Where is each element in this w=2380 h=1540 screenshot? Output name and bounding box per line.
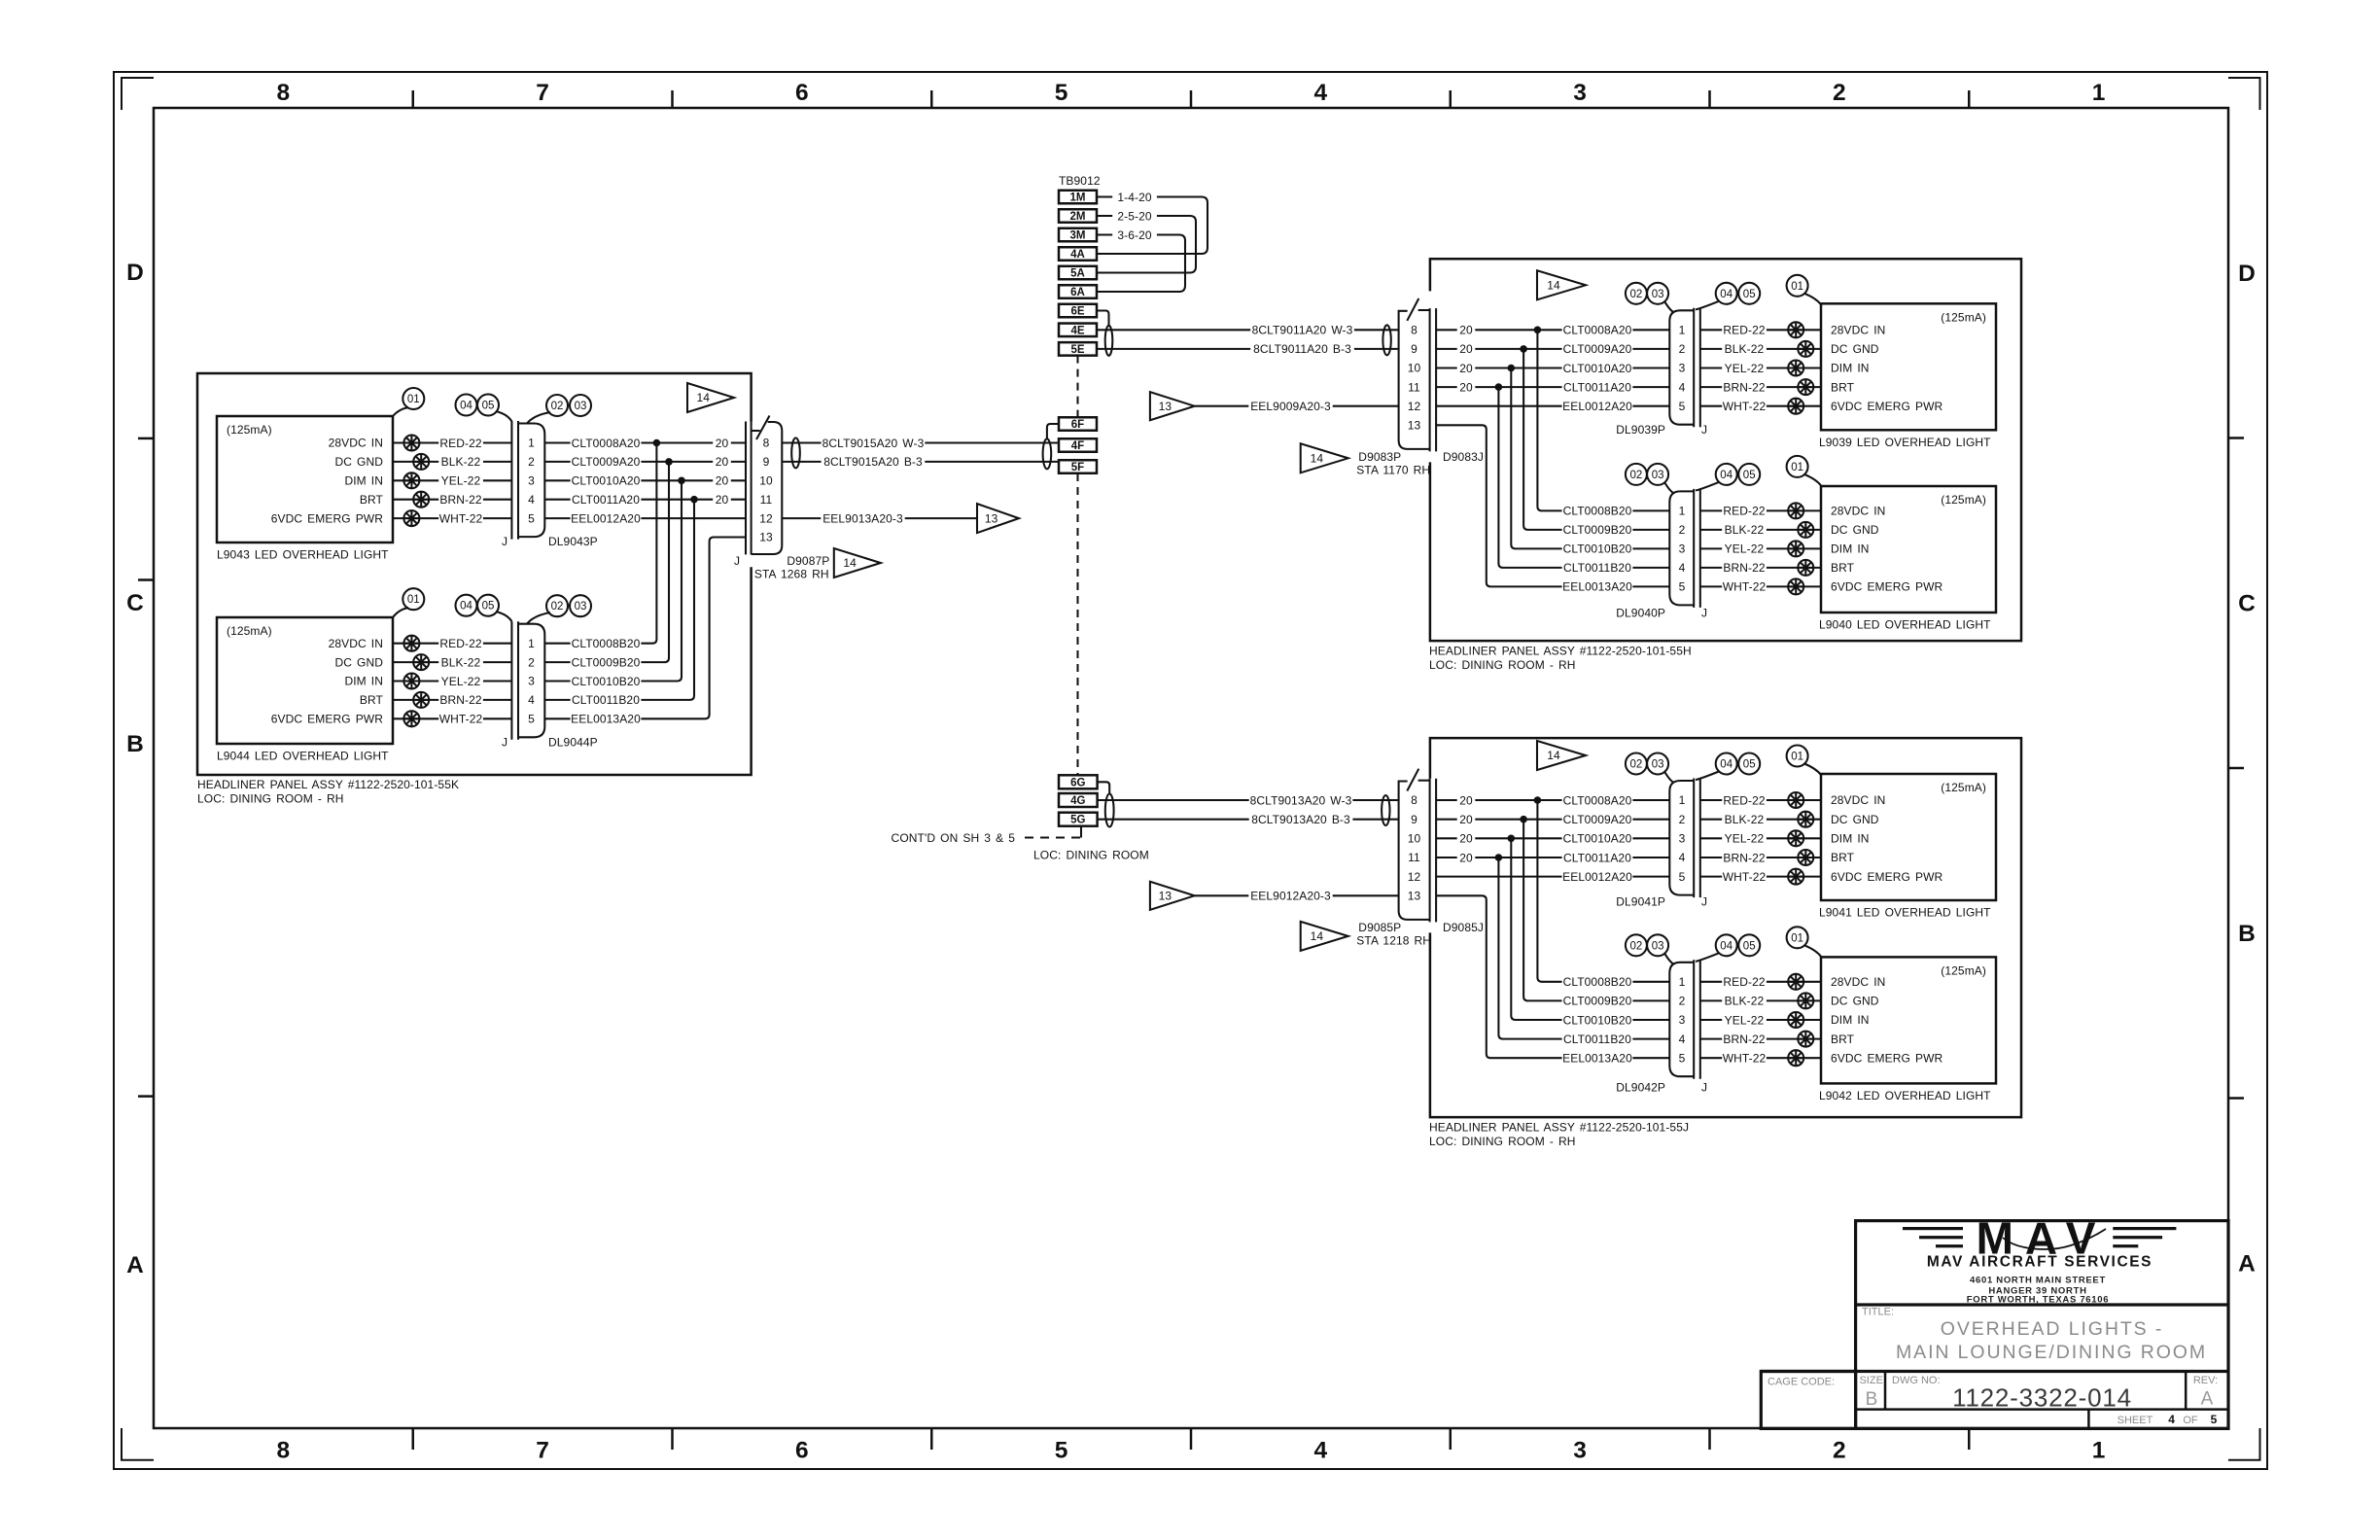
- svg-text:10: 10: [1408, 832, 1421, 846]
- svg-text:D9087P: D9087P: [787, 554, 829, 568]
- svg-text:1: 1: [2092, 1438, 2106, 1464]
- wire CLT0011A20 (DL9043P-4 to D9087P-11): [544, 499, 746, 501]
- svg-text:13: 13: [759, 531, 773, 544]
- svg-text:DL9044P: DL9044P: [548, 736, 598, 750]
- svg-text:20: 20: [1459, 342, 1473, 356]
- svg-text:RED-22: RED-22: [439, 437, 482, 450]
- flag 14 (D9087P): [834, 548, 881, 577]
- svg-text:CLT0011A20: CLT0011A20: [1563, 851, 1631, 864]
- svg-text:BLK-22: BLK-22: [441, 455, 481, 469]
- svg-text:04: 04: [1720, 289, 1732, 300]
- shield symbol at D9083P 8/9: [1382, 325, 1390, 355]
- wire BLK-22 (L9043 DC GND to DL9043P-2): [393, 461, 511, 463]
- svg-text:6VDC EMERG PWR: 6VDC EMERG PWR: [271, 713, 384, 726]
- svg-text:2: 2: [528, 655, 535, 669]
- svg-text:DL9043P: DL9043P: [548, 535, 598, 548]
- svg-text:05: 05: [482, 601, 495, 612]
- svg-text:14: 14: [1311, 929, 1324, 943]
- svg-text:CLT0010B20: CLT0010B20: [1563, 1013, 1632, 1027]
- svg-text:CLT0011A20: CLT0011A20: [572, 493, 640, 507]
- svg-text:05: 05: [1743, 289, 1756, 300]
- svg-text:CONT'D ON SH 3 & 5: CONT'D ON SH 3 & 5: [892, 831, 1016, 845]
- terminal TB9012-4E: [1059, 324, 1097, 337]
- svg-text:1: 1: [1679, 505, 1686, 518]
- svg-text:6VDC EMERG PWR: 6VDC EMERG PWR: [1831, 870, 1943, 884]
- svg-text:B: B: [1866, 1389, 1878, 1410]
- svg-text:EEL9013A20-3: EEL9013A20-3: [822, 511, 903, 525]
- svg-text:01: 01: [407, 594, 420, 606]
- callout 01 (L9043): [393, 407, 408, 416]
- svg-text:EEL0012A20: EEL0012A20: [1562, 870, 1632, 884]
- svg-text:C: C: [2238, 590, 2256, 616]
- svg-text:01: 01: [1791, 752, 1803, 763]
- svg-text:CLT0010A20: CLT0010A20: [1563, 832, 1632, 846]
- svg-text:YEL-22: YEL-22: [441, 675, 481, 688]
- flag 13 (EEL9009A20-3): [1150, 392, 1195, 420]
- junction CLT0008A20/CLT0008B20: [1534, 327, 1542, 334]
- wire RED-22 (DL9040P-1 to L9040 28VDC IN): [1700, 509, 1821, 511]
- svg-text:CLT0011A20: CLT0011A20: [1563, 380, 1631, 394]
- svg-text:4: 4: [2168, 1413, 2175, 1426]
- svg-text:J: J: [1701, 1081, 1707, 1095]
- svg-text:DIM IN: DIM IN: [1831, 832, 1870, 846]
- svg-text:CLT0008B20: CLT0008B20: [1563, 975, 1632, 989]
- terminal 5G: [1059, 813, 1098, 826]
- svg-text:28VDC IN: 28VDC IN: [1831, 975, 1885, 989]
- wire CLT0010B20 (junction tap to DL9040P-3): [1511, 368, 1669, 549]
- callouts 02 03 (DL9043P): [527, 412, 550, 424]
- wire 8CLT9013A20 W-3 (4G to D9085P-8): [1098, 799, 1399, 801]
- connector DL9041P (J): [1693, 779, 1695, 898]
- svg-text:14: 14: [697, 391, 711, 404]
- svg-text:8CLT9013A20 W-3: 8CLT9013A20 W-3: [1250, 793, 1352, 807]
- svg-text:LOC: DINING ROOM - RH: LOC: DINING ROOM - RH: [1429, 658, 1576, 672]
- wire BRN-22 (L9044 BRT to DL9044P-4): [393, 699, 511, 701]
- svg-text:1: 1: [528, 437, 535, 450]
- wire YEL-22 (DL9039P-3 to L9039 DIM IN): [1700, 367, 1821, 368]
- wire 8CLT9011A20 B-3 (TB9012-5E to D9083P-9): [1097, 348, 1399, 350]
- wire EEL9013A20-3 (D9087P-12 to flag 13): [782, 517, 977, 519]
- svg-text:WHT-22: WHT-22: [439, 713, 483, 726]
- svg-text:6: 6: [795, 1438, 809, 1464]
- svg-text:CLT0008A20: CLT0008A20: [1563, 793, 1632, 807]
- svg-text:28VDC IN: 28VDC IN: [1831, 324, 1885, 337]
- svg-text:2: 2: [1679, 523, 1686, 537]
- svg-text:CLT0011B20: CLT0011B20: [1563, 1032, 1631, 1046]
- wire shield drain TB9012-6E: [1097, 311, 1109, 328]
- connector D9083P (STA 1170 RH): [1429, 308, 1431, 451]
- wire RED-22 (L9043 28VDC IN to DL9043P-1): [393, 441, 511, 443]
- svg-text:DC GND: DC GND: [334, 455, 383, 469]
- svg-text:D9083J: D9083J: [1443, 450, 1484, 464]
- terminal TB9012-6E: [1059, 304, 1097, 318]
- svg-text:6G: 6G: [1070, 777, 1085, 788]
- svg-text:8: 8: [1411, 793, 1417, 807]
- svg-text:8CLT9013A20 B-3: 8CLT9013A20 B-3: [1251, 813, 1350, 826]
- svg-text:20: 20: [1459, 324, 1473, 337]
- svg-text:3: 3: [1573, 1438, 1587, 1464]
- terminal TB9012-3M: [1059, 228, 1097, 242]
- terminal 5F: [1059, 460, 1097, 473]
- LED overhead light L9040: [1821, 486, 1996, 612]
- terminal TB9012-5A: [1059, 266, 1097, 280]
- wire BLK-22 (DL9039P-2 to L9039 DC GND): [1700, 348, 1821, 350]
- svg-text:20: 20: [1459, 813, 1473, 826]
- svg-text:6VDC EMERG PWR: 6VDC EMERG PWR: [1831, 1051, 1943, 1065]
- svg-text:3: 3: [1679, 542, 1686, 556]
- svg-text:6VDC EMERG PWR: 6VDC EMERG PWR: [1831, 580, 1943, 594]
- svg-text:5: 5: [1055, 1438, 1068, 1464]
- svg-text:HEADLINER PANEL ASSY #1122-252: HEADLINER PANEL ASSY #1122-2520-101-55J: [1429, 1121, 1689, 1135]
- wire shield drain 6F: [1047, 424, 1059, 440]
- wire shield drain 6G: [1098, 782, 1110, 794]
- svg-text:CLT0011B20: CLT0011B20: [1563, 561, 1631, 575]
- svg-text:3: 3: [1679, 362, 1686, 375]
- svg-text:04: 04: [1720, 759, 1732, 771]
- shield symbol at 4F/5F: [1043, 438, 1052, 469]
- junction CLT0009A20/CLT0009B20: [1520, 816, 1527, 823]
- svg-text:CLT0009B20: CLT0009B20: [572, 655, 641, 669]
- svg-text:2: 2: [1679, 342, 1686, 356]
- svg-text:EEL9012A20-3: EEL9012A20-3: [1250, 890, 1331, 903]
- svg-text:TITLE:: TITLE:: [1862, 1307, 1894, 1318]
- wire YEL-22 (L9043 DIM IN to DL9043P-3): [393, 479, 511, 481]
- wire RED-22 (L9044 28VDC IN to DL9044P-1): [393, 643, 511, 645]
- svg-text:3-6-20: 3-6-20: [1117, 228, 1152, 242]
- svg-text:RED-22: RED-22: [1723, 324, 1766, 337]
- svg-text:DL9039P: DL9039P: [1616, 423, 1665, 437]
- callouts 04 05 (DL9042P): [1696, 953, 1719, 962]
- callout 01 (L9039): [1804, 294, 1821, 305]
- svg-text:CLT0008B20: CLT0008B20: [1563, 505, 1632, 518]
- svg-text:D: D: [2238, 261, 2256, 287]
- dashed line CONT'D ON SH 3 & 5: [1020, 836, 1081, 838]
- LED overhead light L9044: [217, 617, 393, 744]
- svg-text:D9083P: D9083P: [1358, 450, 1401, 464]
- connector DL9042P (J): [1693, 960, 1695, 1078]
- svg-text:TB9012: TB9012: [1059, 174, 1101, 188]
- wire CLT0009B20 (junction tap to DL9040P-2): [1523, 349, 1669, 530]
- svg-text:14: 14: [1311, 452, 1324, 466]
- svg-text:05: 05: [1743, 940, 1756, 952]
- svg-text:9: 9: [1411, 342, 1417, 356]
- svg-text:4: 4: [528, 493, 535, 507]
- svg-text:CLT0009B20: CLT0009B20: [1563, 523, 1632, 537]
- svg-text:1M: 1M: [1070, 192, 1086, 204]
- svg-text:CLT0008A20: CLT0008A20: [572, 437, 641, 450]
- svg-text:(125mA): (125mA): [1941, 493, 1986, 507]
- svg-text:4: 4: [528, 693, 535, 707]
- svg-text:D: D: [126, 260, 144, 286]
- callouts 04 05 (DL9041P): [1696, 772, 1719, 781]
- svg-text:LOC: DINING ROOM - RH: LOC: DINING ROOM - RH: [1429, 1135, 1576, 1148]
- wire BLK-22 (DL9042P-2 to L9042 DC GND): [1700, 999, 1821, 1001]
- svg-text:5: 5: [528, 511, 535, 525]
- wire 3-6-20 (TB9012-3M to TB9012-6A): [1097, 235, 1185, 293]
- flag 13 (EEL9013A20-3): [977, 504, 1019, 533]
- wire BRN-22 (DL9040P-4 to L9040 BRT): [1700, 567, 1821, 569]
- callouts 04 05 (DL9039P): [1696, 301, 1719, 310]
- svg-text:01: 01: [1791, 281, 1803, 293]
- svg-text:YEL-22: YEL-22: [1725, 832, 1765, 846]
- svg-text:7: 7: [536, 80, 549, 106]
- svg-text:L9039 LED OVERHEAD LIGHT: L9039 LED OVERHEAD LIGHT: [1819, 436, 1991, 449]
- svg-text:8CLT9015A20 W-3: 8CLT9015A20 W-3: [822, 437, 925, 450]
- svg-text:J: J: [502, 736, 507, 750]
- svg-text:WHT-22: WHT-22: [1723, 1052, 1767, 1066]
- LED overhead light L9043: [217, 416, 393, 542]
- svg-text:01: 01: [1791, 462, 1803, 473]
- svg-text:2: 2: [1833, 80, 1846, 106]
- svg-text:BRT: BRT: [1831, 380, 1855, 394]
- terminal 4G: [1059, 793, 1098, 807]
- svg-text:20: 20: [716, 493, 729, 507]
- svg-text:3M: 3M: [1070, 230, 1086, 242]
- svg-text:CLT0009B20: CLT0009B20: [1563, 995, 1632, 1008]
- callout 01 (L9042): [1804, 945, 1821, 957]
- wire WHT-22 (DL9039P-5 to L9039 6VDC EMERG PWR): [1700, 405, 1821, 407]
- svg-text:2: 2: [1679, 813, 1686, 826]
- wire EEL0012A20 (D9085P-12 to DL9041P-5): [1436, 876, 1669, 878]
- wire BRN-22 (DL9041P-4 to L9041 BRT): [1700, 857, 1821, 858]
- svg-text:BRT: BRT: [1831, 851, 1855, 864]
- svg-text:3: 3: [1679, 832, 1686, 846]
- junction CLT0009B20/CLT0009A20: [665, 458, 673, 466]
- callouts 04 05 (DL9040P): [1696, 482, 1719, 491]
- svg-text:05: 05: [482, 401, 495, 412]
- svg-text:5A: 5A: [1070, 268, 1085, 280]
- callout 01 (L9041): [1804, 764, 1821, 776]
- wire CLT0011A20 (D9083P-11 to DL9039P-4): [1436, 386, 1669, 388]
- junction CLT0011A20/CLT0011B20: [1495, 854, 1503, 861]
- svg-text:3: 3: [1679, 1013, 1686, 1027]
- svg-text:6VDC EMERG PWR: 6VDC EMERG PWR: [271, 511, 384, 525]
- wire CLT0008B20 (junction tap to DL9042P-1): [1537, 800, 1669, 982]
- svg-text:20: 20: [716, 437, 729, 450]
- wire EEL0013A20 (DL9044P-5 to D9087P-13): [544, 538, 746, 719]
- connector D9085P (STA 1218 RH): [1429, 779, 1431, 923]
- headliner panel assy boundary (55H): [1430, 259, 2021, 641]
- svg-text:8: 8: [1411, 324, 1417, 337]
- svg-text:C: C: [126, 590, 144, 616]
- junction CLT0008A20/CLT0008B20: [1534, 796, 1542, 804]
- wire CLT0009A20 (D9083P-9 to DL9039P-2): [1436, 348, 1669, 350]
- svg-text:J: J: [1701, 423, 1707, 437]
- dashed continuation line 5E to 6F: [1076, 356, 1078, 417]
- svg-text:4: 4: [1679, 380, 1686, 394]
- junction CLT0011B20/CLT0011A20: [690, 496, 698, 504]
- svg-text:9: 9: [763, 455, 770, 469]
- svg-text:CLT0010A20: CLT0010A20: [1563, 362, 1632, 375]
- svg-text:BLK-22: BLK-22: [1725, 995, 1765, 1008]
- svg-text:14: 14: [843, 556, 857, 570]
- svg-text:(125mA): (125mA): [227, 423, 272, 437]
- svg-text:STA 1218 RH: STA 1218 RH: [1356, 934, 1431, 948]
- svg-text:2: 2: [528, 455, 535, 469]
- LED overhead light L9042: [1821, 957, 1996, 1083]
- svg-text:D9085P: D9085P: [1358, 921, 1401, 934]
- svg-text:L9042 LED OVERHEAD LIGHT: L9042 LED OVERHEAD LIGHT: [1819, 1089, 1991, 1102]
- svg-text:YEL-22: YEL-22: [1725, 542, 1765, 556]
- wire CLT0009B20 (junction tap to DL9042P-2): [1523, 820, 1669, 1001]
- svg-text:28VDC IN: 28VDC IN: [329, 437, 383, 450]
- svg-text:(125mA): (125mA): [1941, 310, 1986, 324]
- svg-text:6E: 6E: [1070, 306, 1084, 318]
- svg-text:5: 5: [1679, 580, 1686, 594]
- svg-text:HEADLINER PANEL ASSY #1122-252: HEADLINER PANEL ASSY #1122-2520-101-55H: [1429, 645, 1692, 658]
- svg-text:DIM IN: DIM IN: [1831, 1013, 1870, 1027]
- svg-text:MAIN LOUNGE/DINING ROOM: MAIN LOUNGE/DINING ROOM: [1896, 1342, 2207, 1363]
- terminal TB9012-2M: [1059, 209, 1097, 223]
- svg-text:4F: 4F: [1071, 440, 1084, 452]
- svg-text:20: 20: [1459, 851, 1473, 864]
- svg-text:DL9041P: DL9041P: [1616, 895, 1665, 909]
- flag 14 (D9085P): [1301, 922, 1348, 951]
- svg-text:YEL-22: YEL-22: [1725, 362, 1765, 375]
- svg-text:DC GND: DC GND: [1831, 995, 1879, 1008]
- wire EEL9009A20-3 (flag 13 to D9083P-12): [1195, 405, 1399, 407]
- svg-text:4: 4: [1314, 80, 1328, 106]
- svg-text:RED-22: RED-22: [1723, 505, 1766, 518]
- svg-text:1: 1: [2092, 80, 2106, 106]
- svg-text:8: 8: [277, 1438, 291, 1464]
- svg-text:6F: 6F: [1071, 419, 1084, 431]
- svg-text:CLT0011B20: CLT0011B20: [572, 693, 640, 707]
- junction CLT0010B20/CLT0010A20: [678, 477, 685, 485]
- svg-text:BRT: BRT: [1831, 1032, 1855, 1046]
- callouts 02 03 (DL9041P): [1664, 772, 1674, 784]
- svg-text:CAGE CODE:: CAGE CODE:: [1767, 1377, 1835, 1388]
- svg-text:CLT0009A20: CLT0009A20: [1563, 813, 1632, 826]
- wire YEL-22 (L9044 DIM IN to DL9044P-3): [393, 680, 511, 682]
- junction CLT0010A20/CLT0010B20: [1508, 835, 1516, 843]
- wire CLT0008A20 (DL9043P-1 to D9087P-8): [544, 441, 746, 443]
- svg-text:02: 02: [551, 601, 564, 612]
- wire EEL0013A20 (D9085P-13 to DL9042P-5): [1436, 895, 1669, 1058]
- svg-text:5: 5: [1679, 1051, 1686, 1065]
- svg-text:MAV AIRCRAFT SERVICES: MAV AIRCRAFT SERVICES: [1927, 1254, 2152, 1271]
- svg-text:5F: 5F: [1071, 462, 1084, 473]
- junction CLT0011A20/CLT0011B20: [1495, 383, 1503, 391]
- svg-text:04: 04: [460, 401, 472, 412]
- wire CLT0010B20 (DL9044P-3 tap to junction): [544, 480, 682, 681]
- svg-text:8: 8: [763, 437, 770, 450]
- svg-text:STA 1170 RH: STA 1170 RH: [1356, 464, 1430, 477]
- wire CLT0011B20 (DL9044P-4 tap to junction): [544, 500, 694, 700]
- svg-text:4E: 4E: [1070, 325, 1084, 336]
- svg-text:7: 7: [536, 1438, 549, 1464]
- svg-text:DL9040P: DL9040P: [1616, 607, 1665, 620]
- svg-text:12: 12: [1408, 400, 1421, 413]
- terminal TB9012-1M: [1059, 191, 1097, 204]
- terminal 4F: [1059, 438, 1097, 452]
- svg-text:11: 11: [1408, 380, 1420, 394]
- wire BLK-22 (DL9040P-2 to L9040 DC GND): [1700, 529, 1821, 531]
- svg-text:CLT0009A20: CLT0009A20: [572, 455, 641, 469]
- wire EEL0012A20 (D9083P-12 to DL9039P-5): [1436, 405, 1669, 407]
- wire CLT0009B20 (DL9044P-2 tap to junction): [544, 462, 669, 662]
- svg-text:28VDC IN: 28VDC IN: [1831, 793, 1885, 807]
- svg-text:01: 01: [1791, 932, 1803, 944]
- svg-text:L9040 LED OVERHEAD LIGHT: L9040 LED OVERHEAD LIGHT: [1819, 618, 1991, 632]
- wire RED-22 (DL9039P-1 to L9039 28VDC IN): [1700, 329, 1821, 331]
- svg-text:DIM IN: DIM IN: [344, 675, 383, 688]
- svg-text:CLT0010A20: CLT0010A20: [572, 474, 641, 488]
- svg-text:J: J: [734, 554, 740, 568]
- wire YEL-22 (DL9040P-3 to L9040 DIM IN): [1700, 547, 1821, 549]
- svg-text:8: 8: [277, 80, 291, 106]
- svg-text:04: 04: [1720, 940, 1732, 952]
- wire WHT-22 (L9043 6VDC EMERG PWR to DL9043P-5): [393, 517, 511, 519]
- svg-text:BRN-22: BRN-22: [1723, 851, 1766, 864]
- svg-text:WHT-22: WHT-22: [1723, 580, 1767, 594]
- svg-text:OVERHEAD LIGHTS -: OVERHEAD LIGHTS -: [1941, 1318, 2164, 1340]
- svg-text:BRT: BRT: [1831, 561, 1855, 575]
- svg-text:(125mA): (125mA): [1941, 963, 1986, 977]
- svg-text:DC GND: DC GND: [1831, 523, 1879, 537]
- flag 14 (panel): [1537, 741, 1586, 770]
- svg-text:28VDC IN: 28VDC IN: [329, 637, 383, 650]
- svg-text:CLT0009A20: CLT0009A20: [1563, 342, 1632, 356]
- svg-text:BRN-22: BRN-22: [439, 493, 482, 507]
- svg-text:02: 02: [1630, 289, 1643, 300]
- callout 01 (L9044): [393, 608, 408, 617]
- svg-text:04: 04: [1720, 470, 1732, 481]
- svg-text:03: 03: [575, 601, 587, 612]
- svg-text:20: 20: [716, 474, 729, 488]
- svg-text:1: 1: [1679, 324, 1686, 337]
- svg-text:6A: 6A: [1070, 287, 1085, 298]
- svg-text:SHEET: SHEET: [2117, 1415, 2153, 1426]
- terminal TB9012-6A: [1059, 285, 1097, 298]
- dashed continuation line 5F to 6G: [1076, 473, 1078, 775]
- svg-text:4A: 4A: [1070, 249, 1085, 261]
- svg-text:3: 3: [528, 474, 535, 488]
- headliner panel assy 55K boundary: [197, 373, 752, 775]
- wire CLT0008A20 (D9083P-8 to DL9039P-1): [1436, 329, 1669, 331]
- wire WHT-22 (L9044 6VDC EMERG PWR to DL9044P-5): [393, 717, 511, 719]
- terminal 6G: [1059, 775, 1098, 788]
- continuation stub below 5G: [1080, 826, 1082, 838]
- svg-text:LOC: DINING ROOM - RH: LOC: DINING ROOM - RH: [197, 792, 344, 806]
- terminal TB9012-5E: [1059, 342, 1097, 356]
- svg-text:OF: OF: [2183, 1415, 2198, 1426]
- svg-text:1122-3322-014: 1122-3322-014: [1952, 1383, 2132, 1413]
- svg-text:EEL0013A20: EEL0013A20: [1562, 1052, 1632, 1066]
- svg-text:BLK-22: BLK-22: [1725, 813, 1765, 826]
- wire BRN-22 (L9043 BRT to DL9043P-4): [393, 499, 511, 501]
- svg-text:B: B: [2238, 921, 2256, 947]
- svg-text:BLK-22: BLK-22: [441, 655, 481, 669]
- callouts 02 03 (DL9039P): [1664, 301, 1674, 313]
- svg-text:LOC: DINING ROOM: LOC: DINING ROOM: [1033, 849, 1149, 862]
- svg-text:J: J: [502, 535, 507, 548]
- svg-text:02: 02: [551, 401, 564, 412]
- svg-text:20: 20: [1459, 793, 1473, 807]
- svg-text:20: 20: [1459, 832, 1473, 846]
- svg-text:4: 4: [1679, 1032, 1686, 1046]
- svg-text:CLT0008B20: CLT0008B20: [572, 637, 641, 650]
- wire CLT0011B20 (junction tap to DL9040P-4): [1498, 387, 1669, 568]
- svg-text:4: 4: [1679, 851, 1686, 864]
- svg-text:J: J: [1701, 607, 1707, 620]
- svg-text:DC GND: DC GND: [1831, 813, 1879, 826]
- svg-text:DC GND: DC GND: [1831, 342, 1879, 356]
- wire WHT-22 (DL9040P-5 to L9040 6VDC EMERG PWR): [1700, 585, 1821, 587]
- callouts 02 03 (DL9042P): [1664, 953, 1674, 964]
- svg-text:DC GND: DC GND: [334, 655, 383, 669]
- svg-text:BRT: BRT: [360, 493, 384, 507]
